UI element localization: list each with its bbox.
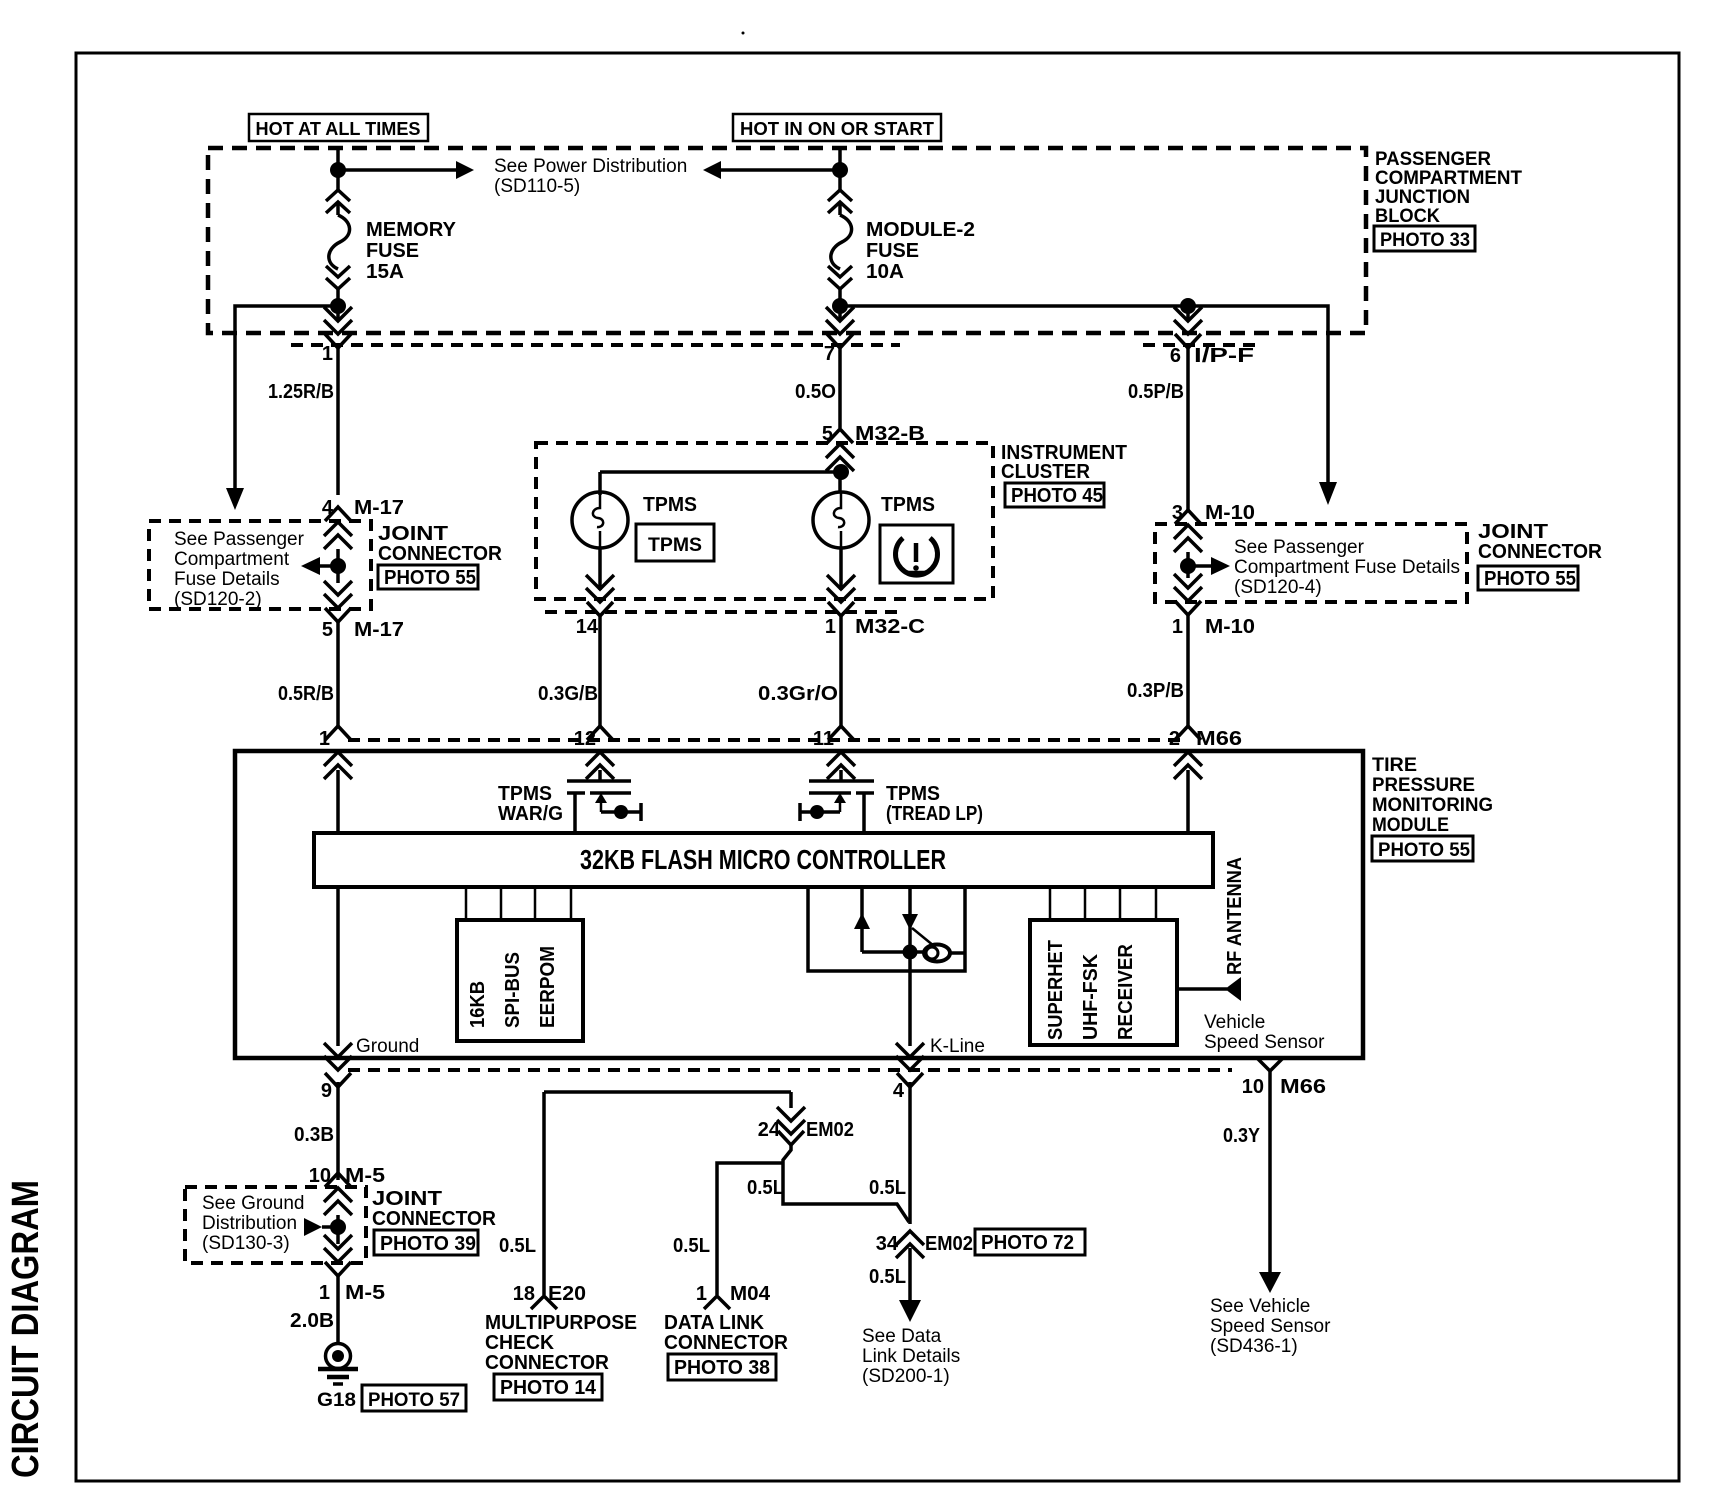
node in right joint connector xyxy=(1180,558,1196,574)
note see data link details SD200-1 xyxy=(862,1326,960,1387)
wire below right bulb xyxy=(839,548,843,590)
svg-text:1: 1 xyxy=(322,343,333,365)
svg-text:0.5L: 0.5L xyxy=(747,1177,784,1199)
pin 24 EM02 label xyxy=(758,1119,854,1141)
svg-text:Speed Sensor: Speed Sensor xyxy=(1204,1032,1325,1053)
connector 10 M-5 entry xyxy=(325,1173,351,1187)
photo 57 box xyxy=(362,1385,466,1411)
svg-text:M04: M04 xyxy=(730,1283,771,1305)
svg-text:M-17: M-17 xyxy=(354,619,404,641)
connector 34 EM02 xyxy=(896,1231,924,1258)
wire to see power distribution (right) xyxy=(720,168,840,172)
joint connector right label xyxy=(1478,521,1603,563)
svg-text:M66: M66 xyxy=(1196,728,1242,750)
photo 72 box xyxy=(975,1229,1085,1255)
svg-text:FUSE: FUSE xyxy=(866,240,919,262)
svg-text:JUNCTION: JUNCTION xyxy=(1375,187,1470,208)
arrow down see vehicle speed sensor xyxy=(1259,1272,1281,1293)
joint connector right (dashed box SD120-4) xyxy=(1155,524,1467,602)
svg-text:JOINT: JOINT xyxy=(378,523,448,545)
label multipurpose check connector xyxy=(485,1312,637,1374)
svg-text:CLUSTER: CLUSTER xyxy=(1001,461,1091,483)
svg-text:0.5L: 0.5L xyxy=(869,1266,906,1288)
svg-text:(SD120-2): (SD120-2) xyxy=(174,589,262,610)
arrow left to fuse details text xyxy=(301,557,320,575)
svg-text:PHOTO 55: PHOTO 55 xyxy=(1378,840,1470,861)
svg-text:(SD120-4): (SD120-4) xyxy=(1234,577,1322,598)
photo 55 box (right joint connector) xyxy=(1478,566,1578,590)
svg-text:10A: 10A xyxy=(866,261,904,283)
rf antenna lead xyxy=(1177,987,1227,991)
wire: memory fuse feed from junction block top xyxy=(336,148,340,190)
memory block 16KB SPI-BUS EERPOM xyxy=(457,920,583,1041)
arrow right: see power distribution xyxy=(456,161,474,179)
ground joint connector (dashed box SD130-3) xyxy=(185,1187,366,1263)
svg-text:MODULE: MODULE xyxy=(1372,815,1449,836)
arrow down see data link details xyxy=(899,1300,921,1322)
svg-text:See Vehicle: See Vehicle xyxy=(1210,1296,1310,1317)
connector 5 M-17 exit xyxy=(324,581,352,608)
connector 1 M32-C at cluster exit xyxy=(827,575,855,602)
wire 2.0B segment xyxy=(336,1276,340,1343)
svg-text:K-Line: K-Line xyxy=(930,1036,985,1057)
instrument cluster (dashed box) xyxy=(536,443,993,599)
svg-text:PHOTO 33: PHOTO 33 xyxy=(1380,230,1470,251)
svg-text:16KB: 16KB xyxy=(467,981,489,1028)
connector pin 2 entry to module xyxy=(1175,726,1201,740)
svg-text:CHECK: CHECK xyxy=(485,1332,555,1354)
svg-text:MODULE-2: MODULE-2 xyxy=(866,219,975,241)
pin 34 EM02 label xyxy=(876,1233,973,1255)
wire into cluster to node xyxy=(838,470,842,492)
module top boundary dashed line xyxy=(348,738,1180,742)
wire from node to arrow xyxy=(1188,564,1211,568)
connector pin 10 M66 exit xyxy=(1257,1058,1283,1071)
svg-text:Ground: Ground xyxy=(356,1036,419,1057)
svg-text:See Passenger: See Passenger xyxy=(174,529,305,550)
wire inside ground joint connector xyxy=(336,1215,340,1244)
wire pin1 to controller xyxy=(336,770,340,833)
wire k-line pin4 down xyxy=(908,1082,912,1224)
node: memory fuse top junction xyxy=(330,162,346,178)
svg-text:PHOTO 57: PHOTO 57 xyxy=(368,1390,460,1411)
svg-text:(SD200-1): (SD200-1) xyxy=(862,1366,950,1387)
svg-text:M32-B: M32-B xyxy=(855,423,925,445)
svg-text:CONNECTOR: CONNECTOR xyxy=(378,543,503,565)
note see passenger compartment fuse details SD120-4 xyxy=(1234,537,1460,598)
bulb TPMS (right indicator) xyxy=(813,492,869,548)
svg-text:Distribution: Distribution xyxy=(202,1213,297,1234)
connector pin 9 ground exit xyxy=(324,1043,352,1070)
label TPMS WAR/G xyxy=(498,783,563,825)
wire 0.5R/B segment xyxy=(336,622,340,727)
photo 14 box xyxy=(494,1374,602,1400)
wire pin1 below controller to ground exit xyxy=(336,887,340,1046)
svg-text:CONNECTOR: CONNECTOR xyxy=(664,1332,789,1354)
ground G18 symbol xyxy=(318,1344,358,1385)
receiver connecting stubs xyxy=(1050,887,1156,920)
svg-text:M-10: M-10 xyxy=(1205,616,1255,638)
module label xyxy=(1372,755,1493,836)
svg-text:TPMS: TPMS xyxy=(643,494,697,516)
svg-text:G18: G18 xyxy=(317,1390,356,1411)
svg-text:34: 34 xyxy=(876,1233,899,1255)
wire horizontal from E20 branch xyxy=(544,1090,791,1094)
svg-text:JOINT: JOINT xyxy=(1478,521,1548,543)
svg-text:PHOTO 39: PHOTO 39 xyxy=(380,1233,476,1255)
pin 10 M66 label xyxy=(1242,1076,1326,1098)
svg-text:0.3B: 0.3B xyxy=(294,1124,334,1146)
wire from arrow to node xyxy=(320,564,338,568)
TPMS telltale icon box xyxy=(880,525,953,583)
photo 33 box xyxy=(1374,226,1475,251)
svg-text:M66: M66 xyxy=(1280,1076,1326,1098)
svg-text:0.3G/B: 0.3G/B xyxy=(538,683,598,705)
node below module-2 fuse xyxy=(832,298,848,314)
pin 1 M04 label xyxy=(696,1283,771,1305)
svg-text:2.0B: 2.0B xyxy=(290,1310,334,1332)
svg-text:15A: 15A xyxy=(366,261,404,283)
wire 0.3Gr/O segment xyxy=(839,616,843,727)
wire branch right along y306 xyxy=(840,306,1328,482)
rf antenna symbol xyxy=(1225,977,1241,1001)
wire to see power distribution (left) xyxy=(338,168,456,172)
wire arrow to node xyxy=(322,1225,338,1229)
svg-text:(SD436-1): (SD436-1) xyxy=(1210,1336,1298,1357)
note see ground distribution SD130-3 xyxy=(202,1193,304,1254)
connector 7 at junction block exit (middle) xyxy=(826,307,854,334)
node at I/P-F branch xyxy=(1180,298,1196,314)
connector 1 M04 terminal xyxy=(704,1296,730,1309)
transistor Q1 TPMS WAR/G driver xyxy=(567,781,641,833)
wire 0.3P/B segment xyxy=(1186,615,1190,727)
arrow down into left fuse details xyxy=(226,488,244,510)
svg-text:CONNECTOR: CONNECTOR xyxy=(372,1208,497,1230)
wire branch to M04 xyxy=(717,1163,783,1295)
svg-text:FUSE: FUSE xyxy=(366,240,419,262)
svg-text:CONNECTOR: CONNECTOR xyxy=(1478,541,1603,563)
svg-text:EM02: EM02 xyxy=(806,1119,854,1141)
svg-text:M-10: M-10 xyxy=(1205,502,1255,524)
wire pin12 to transistor xyxy=(598,770,602,781)
svg-text:Compartment: Compartment xyxy=(174,549,290,570)
svg-text:DATA LINK: DATA LINK xyxy=(664,1312,765,1334)
memory block connecting stubs xyxy=(466,887,571,920)
connector 1 M-5 exit xyxy=(324,1235,352,1262)
svg-text:0.5L: 0.5L xyxy=(499,1235,536,1257)
wire inside right joint connector xyxy=(1186,552,1190,578)
svg-text:See Power Distribution: See Power Distribution xyxy=(494,156,687,177)
svg-text:PHOTO 14: PHOTO 14 xyxy=(500,1377,597,1399)
svg-text:32KB FLASH MICRO CONTROLLER: 32KB FLASH MICRO CONTROLLER xyxy=(580,844,946,875)
wire below fuse F1 xyxy=(336,288,340,320)
photo 39 box xyxy=(374,1230,478,1255)
svg-text:BLOCK: BLOCK xyxy=(1375,206,1440,227)
pin 10 M-5 label xyxy=(309,1165,385,1187)
svg-text:24: 24 xyxy=(758,1119,781,1141)
wire I/P-F down from junction xyxy=(1186,306,1190,320)
arrow right to ground node xyxy=(304,1218,322,1236)
joint connector ground label xyxy=(372,1188,497,1230)
wire 0.5L down to E20 xyxy=(542,1092,546,1295)
wire k-line down to module exit xyxy=(908,971,912,1046)
second boundary dashed below cluster xyxy=(545,610,905,614)
photo 38 box xyxy=(668,1354,776,1380)
svg-text:Link Details: Link Details xyxy=(862,1346,960,1367)
svg-text:EERPOM: EERPOM xyxy=(537,946,559,1028)
svg-text:MEMORY: MEMORY xyxy=(366,219,457,241)
pin 5 M-17 label xyxy=(322,619,404,641)
connector 3 M-10 entry xyxy=(1175,510,1201,524)
wire 0.5P/B segment xyxy=(1186,348,1190,510)
note see passenger compartment fuse details SD120-2 xyxy=(174,529,305,610)
label vehicle speed sensor (inside module) xyxy=(1204,1012,1325,1053)
svg-text:0.5R/B: 0.5R/B xyxy=(278,683,334,705)
svg-text:See Data: See Data xyxy=(862,1326,942,1347)
svg-text:M-5: M-5 xyxy=(345,1282,385,1304)
svg-text:12: 12 xyxy=(574,728,596,750)
pin 1 M-5 label xyxy=(319,1282,385,1304)
wire 0.5O segment xyxy=(838,348,842,428)
module bottom boundary dashed line xyxy=(348,1068,1232,1072)
junction block label xyxy=(1375,149,1522,227)
wire pin2 to controller xyxy=(1186,770,1190,833)
label box HOT AT ALL TIMES xyxy=(249,114,428,141)
photo 45 box xyxy=(1005,483,1104,507)
svg-text:PHOTO 55: PHOTO 55 xyxy=(384,567,476,589)
svg-text:PHOTO 38: PHOTO 38 xyxy=(674,1357,770,1379)
node in ground joint connector xyxy=(330,1219,346,1235)
pin 1 M-10 label xyxy=(1172,616,1255,638)
label TPMS (TREAD LP) xyxy=(886,783,983,825)
wire 1.25R/B segment xyxy=(336,348,340,495)
svg-text:TPMS: TPMS xyxy=(498,783,552,805)
svg-text:RF ANTENNA: RF ANTENNA xyxy=(1224,857,1246,975)
svg-text:HOT AT ALL TIMES: HOT AT ALL TIMES xyxy=(256,119,421,139)
svg-text:TPMS: TPMS xyxy=(881,494,935,516)
svg-text:0.5O: 0.5O xyxy=(795,381,836,403)
receiver block SUPERHET UHF-FSK RECEIVER xyxy=(1030,920,1177,1045)
svg-text:TPMS: TPMS xyxy=(648,535,702,556)
svg-text:TPMS: TPMS xyxy=(886,783,940,805)
svg-text:10: 10 xyxy=(1242,1076,1264,1098)
note: see power distribution xyxy=(494,156,687,197)
svg-text:UHF-FSK: UHF-FSK xyxy=(1080,953,1102,1040)
svg-text:MULTIPURPOSE: MULTIPURPOSE xyxy=(485,1312,637,1334)
joint connector left label xyxy=(378,523,503,565)
label box HOT IN ON OR START xyxy=(733,114,941,141)
connector 1 at junction block exit (left) xyxy=(324,307,352,334)
TPMS indicator box xyxy=(636,524,714,561)
wire 0.3G/B segment xyxy=(598,616,602,727)
svg-text:COMPARTMENT: COMPARTMENT xyxy=(1375,168,1522,189)
connector pin 4 k-line exit xyxy=(896,1043,924,1070)
fuse F1 MEMORY FUSE 15A xyxy=(326,190,350,289)
label module-2 fuse xyxy=(866,219,975,283)
wire 0.5L below EM02 34 xyxy=(908,1248,912,1300)
instrument cluster label xyxy=(1001,442,1127,483)
svg-text:18: 18 xyxy=(513,1283,535,1305)
svg-text:7: 7 xyxy=(824,343,835,365)
wire inside left joint connector xyxy=(336,549,340,583)
svg-text:4: 4 xyxy=(893,1080,905,1102)
wire below EM02 pin 24 with jog xyxy=(783,1145,909,1222)
svg-text:Compartment Fuse Details: Compartment Fuse Details xyxy=(1234,557,1460,578)
wire 0.3Y from pin 10 M66 xyxy=(1268,1071,1272,1272)
svg-text:0.3Gr/O: 0.3Gr/O xyxy=(758,683,838,705)
svg-text:Speed Sensor: Speed Sensor xyxy=(1210,1316,1331,1337)
svg-text:PHOTO 55: PHOTO 55 xyxy=(1484,568,1576,590)
connector pin 11 entry to module xyxy=(828,726,854,740)
svg-text:See Ground: See Ground xyxy=(202,1193,304,1214)
svg-text:MONITORING: MONITORING xyxy=(1372,795,1493,816)
fuse F2 MODULE-2 FUSE 10A xyxy=(828,190,852,289)
speck top center xyxy=(742,32,745,35)
connector pin 1 entry to module xyxy=(325,726,351,740)
wire 0.3B segment xyxy=(336,1082,340,1180)
connector 6 I/P-F at junction block exit (right) xyxy=(1174,307,1202,334)
wire below fuse F2 xyxy=(838,288,842,320)
svg-text:6: 6 xyxy=(1170,345,1181,367)
tire pressure monitoring module box xyxy=(235,751,1363,1058)
pin 18 E20 label xyxy=(513,1283,586,1305)
svg-text:PASSENGER: PASSENGER xyxy=(1375,149,1491,170)
pin 5 M32-B label xyxy=(822,423,925,445)
svg-text:M32-C: M32-C xyxy=(855,616,925,638)
svg-text:CIRCUIT DIAGRAM: CIRCUIT DIAGRAM xyxy=(5,1180,47,1478)
svg-text:E20: E20 xyxy=(548,1283,586,1305)
svg-text:5: 5 xyxy=(322,619,333,641)
joint connector left (dashed box SD120-2) xyxy=(149,521,371,609)
svg-text:M-5: M-5 xyxy=(345,1165,385,1187)
svg-text:CONNECTOR: CONNECTOR xyxy=(485,1352,610,1374)
arrow left: see power distribution xyxy=(703,161,721,179)
svg-text:1.25R/B: 1.25R/B xyxy=(268,381,334,403)
svg-text:PHOTO 45: PHOTO 45 xyxy=(1011,485,1103,507)
svg-text:EM02: EM02 xyxy=(925,1233,973,1255)
svg-text:See Passenger: See Passenger xyxy=(1234,537,1365,558)
svg-text:0.3P/B: 0.3P/B xyxy=(1127,680,1184,702)
svg-text:1: 1 xyxy=(696,1283,707,1305)
wire down from horizontal to EM02 pin 24 xyxy=(789,1092,793,1108)
svg-text:1: 1 xyxy=(319,1282,330,1304)
pin 4 M-17 label xyxy=(322,497,404,519)
node below memory fuse xyxy=(330,298,346,314)
svg-text:0.5P/B: 0.5P/B xyxy=(1128,381,1184,403)
node in cluster xyxy=(833,464,849,480)
connector pin 12 entry to module xyxy=(587,726,613,740)
photo 55 box (left joint connector) xyxy=(378,565,478,589)
svg-text:Fuse Details: Fuse Details xyxy=(174,569,280,590)
pin 1 M32-C label xyxy=(825,616,925,638)
second boundary dashed line below junction block xyxy=(291,343,900,347)
svg-text:(SD130-3): (SD130-3) xyxy=(202,1233,290,1254)
svg-text:1: 1 xyxy=(825,616,836,638)
node: module-2 fuse top junction xyxy=(832,162,848,178)
svg-text:I/P-F: I/P-F xyxy=(1194,345,1254,367)
32KB flash micro controller box xyxy=(314,833,1213,887)
svg-text:(TREAD LP): (TREAD LP) xyxy=(886,803,983,825)
svg-text:WAR/G: WAR/G xyxy=(498,803,563,825)
svg-text:0.3Y: 0.3Y xyxy=(1223,1125,1261,1147)
connector 18 E20 terminal xyxy=(531,1296,557,1309)
wire below left bulb xyxy=(598,548,602,590)
label data link connector xyxy=(664,1312,789,1354)
connector 4 M-17 entry xyxy=(325,507,351,521)
svg-text:9: 9 xyxy=(321,1080,332,1102)
svg-text:M-17: M-17 xyxy=(354,497,404,519)
transistor Q2 TPMS TREAD LP driver xyxy=(800,781,874,833)
k-line driver sub-circuit xyxy=(808,887,965,971)
wire pin11 to transistor xyxy=(839,770,843,781)
photo 55 box (module) xyxy=(1372,836,1473,861)
svg-text:0.5L: 0.5L xyxy=(869,1177,906,1199)
arrow right to fuse details text xyxy=(1211,557,1230,575)
svg-text:RECEIVER: RECEIVER xyxy=(1115,943,1137,1040)
bulb TPMS (left indicator) xyxy=(572,492,628,548)
arrow down into right fuse details xyxy=(1319,482,1337,505)
note see vehicle speed sensor SD436-1 xyxy=(1210,1296,1331,1357)
svg-text:SPI-BUS: SPI-BUS xyxy=(502,952,524,1028)
svg-text:JOINT: JOINT xyxy=(372,1188,442,1210)
svg-text:Vehicle: Vehicle xyxy=(1204,1012,1265,1033)
svg-text:SUPERHET: SUPERHET xyxy=(1045,940,1067,1040)
connector 5 M32-B entry to cluster xyxy=(827,429,853,443)
svg-text:1: 1 xyxy=(1172,616,1183,638)
svg-text:PHOTO 72: PHOTO 72 xyxy=(981,1232,1074,1254)
svg-text:TIRE: TIRE xyxy=(1372,755,1417,776)
connector 1 M-10 exit xyxy=(1174,574,1202,601)
pin 3 M-10 label xyxy=(1172,502,1255,524)
connector 14 at cluster exit xyxy=(586,575,614,602)
svg-text:(SD110-5): (SD110-5) xyxy=(494,176,580,197)
svg-text:HOT IN ON OR START: HOT IN ON OR START xyxy=(740,119,934,139)
svg-text:0.5L: 0.5L xyxy=(673,1235,710,1257)
passenger compartment junction block (dashed box) xyxy=(208,148,1366,333)
node in left joint connector xyxy=(330,558,346,574)
connector 24 EM02 xyxy=(777,1107,805,1134)
label memory fuse xyxy=(366,219,457,283)
wire: module-2 fuse feed from junction block top xyxy=(838,148,842,190)
svg-text:PRESSURE: PRESSURE xyxy=(1372,775,1475,796)
pin 6 label + I/P-F xyxy=(1170,345,1254,367)
wire across cluster to left bulb xyxy=(600,472,841,495)
wire branch left to SD120-2 arrow xyxy=(235,306,338,488)
svg-text:14: 14 xyxy=(576,616,599,638)
